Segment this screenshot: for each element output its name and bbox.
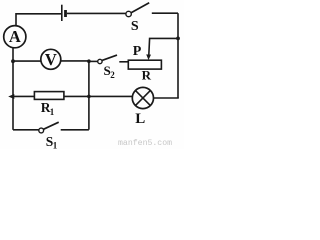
wire middle vertical xyxy=(88,61,90,130)
wire lamp to right vertical xyxy=(154,97,179,99)
switch S2 xyxy=(98,55,117,80)
node junction dot right xyxy=(176,37,180,41)
wire voltmeter to node xyxy=(61,60,89,62)
wire R1 to lamp xyxy=(64,95,132,97)
resistor R1 xyxy=(34,92,64,117)
wire node to switch S2 xyxy=(89,60,98,62)
wire switch S to right corner xyxy=(152,12,178,14)
wire S1 to middle vertical xyxy=(61,129,89,131)
lamp L xyxy=(132,87,153,126)
svg-text:S: S xyxy=(131,19,139,34)
wire battery to switch S xyxy=(67,12,126,14)
rheostat R body xyxy=(128,60,161,69)
voltmeter V xyxy=(41,49,61,69)
svg-text:P: P xyxy=(133,44,142,59)
svg-text:A: A xyxy=(9,27,21,46)
wire node to voltmeter xyxy=(13,60,41,62)
svg-text:2: 2 xyxy=(110,70,115,80)
wire switch S2 to rheostat xyxy=(119,61,128,63)
node junction dot left xyxy=(11,59,15,63)
battery short plate xyxy=(64,10,67,17)
arrowhead left on R1 row xyxy=(8,94,14,99)
wire left vertical to R1 xyxy=(13,95,34,97)
svg-text:1: 1 xyxy=(50,107,55,117)
wire right vertical xyxy=(177,13,179,98)
wire bottom left to S1 xyxy=(13,129,39,131)
node junction blob R1 row xyxy=(87,95,91,99)
slider arrowhead P onto rheostat xyxy=(146,54,151,60)
node junction dot middle xyxy=(87,59,91,63)
svg-text:V: V xyxy=(45,50,57,69)
wire ammeter riser to top xyxy=(16,14,61,26)
svg-text:L: L xyxy=(135,111,145,127)
svg-text:R: R xyxy=(142,67,152,82)
wire slider P to right vertical xyxy=(149,38,178,55)
svg-text:manfen5.com: manfen5.com xyxy=(118,138,172,148)
switch S1 xyxy=(39,122,59,150)
ammeter A xyxy=(4,26,26,48)
wire left vertical xyxy=(12,48,14,130)
svg-text:1: 1 xyxy=(53,140,58,149)
battery long plate xyxy=(61,5,63,21)
switch S xyxy=(126,3,149,34)
